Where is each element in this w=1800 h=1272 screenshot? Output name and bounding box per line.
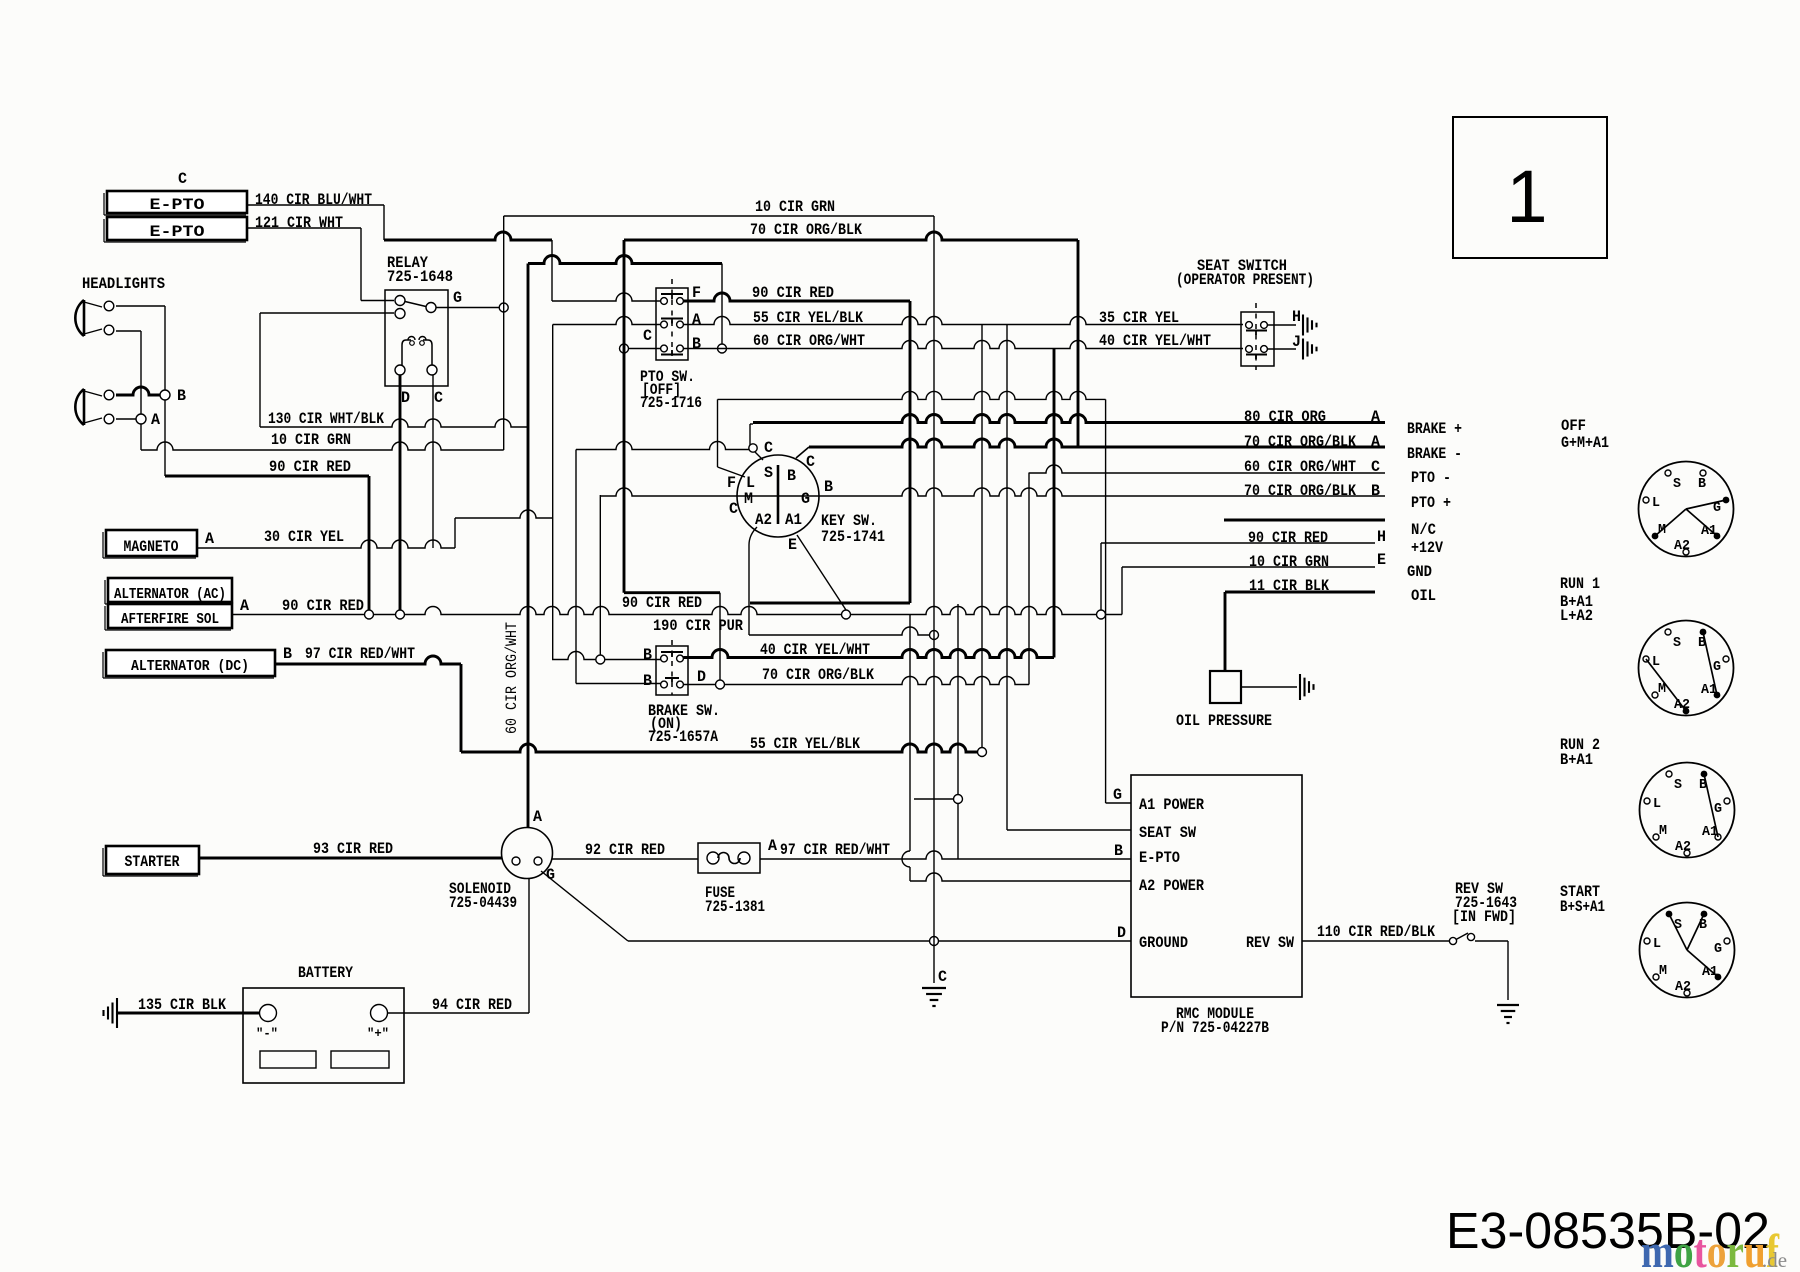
wire 10 CIR GRN E [1122, 566, 1375, 568]
wire 90 CIR RED afterfire [232, 614, 365, 616]
svg-text:130 CIR WHT/BLK: 130 CIR WHT/BLK [268, 410, 384, 428]
seat actuator dashes [1255, 303, 1257, 370]
alternator AC box [108, 578, 232, 602]
wire PTO B line [628, 348, 661, 350]
relay blade [405, 302, 426, 307]
wire 60 CIR ORG/WHT C [1029, 465, 1385, 473]
alternator DC box [106, 650, 275, 676]
svg-text:G+M+A1: G+M+A1 [1561, 434, 1609, 452]
key pin A2 drop [749, 527, 757, 635]
svg-text:[IN FWD]: [IN FWD] [1452, 908, 1516, 926]
svg-text:70 CIR ORG/BLK: 70 CIR ORG/BLK [1244, 482, 1356, 500]
svg-text:10 CIR GRN: 10 CIR GRN [755, 198, 835, 216]
svg-text:725-1657A: 725-1657A [648, 728, 718, 746]
wire seat J out [1268, 348, 1297, 350]
svg-text:F: F [692, 284, 701, 302]
svg-text:A2: A2 [1675, 839, 1691, 855]
wire lamp2 top to node B [116, 387, 165, 395]
wire vertical bus 934 [933, 216, 935, 941]
wire 55 CIR YEL/BLK lower [461, 744, 982, 752]
svg-text:B: B [177, 387, 186, 405]
wire A1 power net [717, 399, 719, 467]
junction +12V drop [1097, 610, 1106, 619]
svg-text:70 CIR ORG/BLK: 70 CIR ORG/BLK [762, 666, 874, 684]
wire seat H out [1268, 324, 1297, 326]
svg-text:725-04439: 725-04439 [449, 894, 517, 912]
svg-text:A2: A2 [755, 511, 772, 529]
relay switch pin 3 [426, 303, 436, 313]
svg-text:N/C: N/C [1411, 521, 1436, 539]
svg-text:RUN 1: RUN 1 [1560, 575, 1600, 593]
wire 130 CIR WHT/BLK [260, 312, 394, 314]
PTO contact F [661, 293, 683, 295]
svg-text:MAGNETO: MAGNETO [124, 538, 179, 556]
starter box [106, 846, 199, 874]
key position START [1640, 903, 1735, 998]
key pin C top [749, 444, 757, 452]
wire 10 CIR GRN right portion [576, 442, 750, 450]
wire N/C line [1224, 519, 1385, 522]
svg-text:L+A2: L+A2 [1560, 607, 1593, 625]
svg-text:G: G [453, 289, 462, 307]
junction relay D on AFTERFIRE line [396, 610, 405, 619]
node B junction [160, 390, 170, 400]
svg-text:B: B [1698, 476, 1707, 492]
solenoid pin right [534, 857, 542, 865]
wire brake bottom feed [575, 450, 577, 684]
wire key M-G line [600, 488, 1385, 496]
svg-text:B: B [1371, 482, 1380, 500]
svg-text:E-PTO: E-PTO [1139, 849, 1180, 867]
wire seat sw feed [1006, 325, 1008, 830]
svg-text:140 CIR BLU/WHT: 140 CIR BLU/WHT [255, 191, 372, 209]
PTO switch box [656, 288, 688, 360]
svg-text:"-": "-" [256, 1026, 278, 1041]
svg-text:G: G [1713, 659, 1721, 675]
svg-text:A: A [151, 411, 160, 429]
svg-text:B+S+A1: B+S+A1 [1560, 898, 1605, 916]
wire oil pressure ground [1241, 686, 1297, 688]
ground battery minus [116, 998, 118, 1028]
svg-text:REV SW: REV SW [1246, 934, 1294, 952]
svg-text:G: G [1113, 786, 1122, 804]
wire lamp1 bottom [116, 330, 141, 332]
svg-text:motoruf: motoruf [1641, 1225, 1780, 1272]
svg-text:STARTER: STARTER [125, 853, 180, 871]
svg-text:B: B [787, 467, 796, 485]
svg-text:OIL PRESSURE: OIL PRESSURE [1176, 712, 1272, 730]
svg-text:B: B [1699, 917, 1708, 933]
svg-text:ALTERNATOR (DC): ALTERNATOR (DC) [131, 658, 249, 675]
seat contact H [1246, 330, 1267, 332]
svg-text:S: S [1673, 476, 1681, 492]
svg-text:40 CIR YEL/WHT: 40 CIR YEL/WHT [1099, 332, 1211, 350]
svg-text:C: C [764, 439, 773, 457]
svg-text:.de: .de [1762, 1248, 1787, 1272]
junction on AFTERFIRE line [365, 610, 374, 619]
wire 70 CIR ORG/BLK (top) [624, 232, 1078, 240]
wire jumper 263 (PTO feed) [528, 256, 722, 264]
svg-text:B: B [692, 335, 701, 353]
svg-text:60 CIR ORG/WHT: 60 CIR ORG/WHT [753, 332, 865, 350]
wire ground D line [628, 940, 1131, 942]
svg-text:D: D [697, 668, 706, 686]
magneto box [106, 530, 197, 556]
svg-text:D: D [1117, 924, 1126, 942]
relay coil pin D [395, 365, 405, 375]
brake contact top [661, 651, 683, 653]
ground C symbol [922, 987, 946, 989]
PTO contact B [661, 345, 668, 352]
connector E-PTO (upper) [107, 191, 247, 213]
seat switch box [1241, 312, 1274, 366]
svg-text:A: A [768, 837, 777, 855]
svg-text:725-1381: 725-1381 [705, 898, 765, 916]
svg-text:70 CIR ORG/BLK: 70 CIR ORG/BLK [750, 221, 862, 239]
svg-text:B: B [283, 645, 292, 663]
key position OFF [1639, 462, 1734, 557]
wire 30 CIR YEL [197, 540, 455, 548]
svg-text:A: A [205, 530, 214, 548]
wire rev sw to ground [1475, 940, 1508, 942]
wire 496 feed vertical [599, 495, 601, 655]
battery cell rect 2 [331, 1051, 389, 1068]
svg-text:E-PTO: E-PTO [150, 196, 205, 214]
svg-text:10 CIR GRN: 10 CIR GRN [1249, 553, 1329, 571]
svg-text:L: L [1653, 936, 1661, 952]
svg-text:121 CIR WHT: 121 CIR WHT [255, 214, 343, 232]
wire 92 CIR RED [553, 858, 699, 860]
key pin E diagonal [797, 535, 846, 610]
wire 11 CIR BLK [1225, 591, 1375, 594]
svg-text:SEAT SW: SEAT SW [1139, 824, 1196, 842]
oil pressure box [1210, 671, 1241, 703]
ground seat H [1302, 315, 1304, 336]
svg-text:90 CIR RED: 90 CIR RED [269, 458, 351, 476]
rev switch [1449, 937, 1456, 944]
ground oil pressure [1299, 674, 1301, 700]
ground rev sw [1497, 1004, 1519, 1006]
key position RUN 2 [1640, 763, 1735, 858]
wire vertical bus 624 [623, 240, 626, 593]
svg-text:B: B [643, 672, 652, 690]
svg-text:B: B [824, 478, 833, 496]
svg-text:725-1716: 725-1716 [640, 394, 702, 412]
wire relay G to bus [436, 307, 499, 309]
svg-text:J: J [1292, 333, 1301, 351]
key pin F diag [718, 467, 746, 477]
wire 93 CIR RED [199, 857, 502, 860]
svg-text:GND: GND [1407, 563, 1432, 581]
svg-text:S: S [1674, 777, 1682, 793]
svg-text:H: H [1377, 528, 1386, 546]
junction relay G on vertical 503 [499, 303, 508, 312]
svg-text:C: C [729, 500, 738, 518]
battery terminal minus [260, 1005, 277, 1022]
svg-text:C: C [806, 453, 815, 471]
svg-text:C: C [938, 968, 947, 986]
svg-text:A: A [692, 311, 701, 329]
wire 80 CIR ORG [753, 415, 1385, 423]
wire relay C down [432, 375, 434, 548]
key switch bar [777, 465, 780, 524]
svg-text:S: S [1673, 635, 1681, 651]
solenoid circle [502, 828, 553, 879]
svg-text:OIL: OIL [1411, 587, 1436, 605]
svg-text:F: F [727, 474, 736, 492]
svg-text:E-PTO: E-PTO [150, 223, 205, 241]
svg-text:A1: A1 [785, 511, 802, 529]
svg-text:L: L [1652, 495, 1660, 511]
wire 80 CIR ORG from C [749, 424, 751, 445]
svg-text:A1 POWER: A1 POWER [1139, 796, 1204, 814]
svg-text:M: M [744, 490, 753, 508]
junction PTO B left [620, 344, 629, 353]
svg-text:B: B [1114, 842, 1123, 860]
svg-text:90 CIR RED: 90 CIR RED [282, 597, 364, 615]
svg-text:ALTERNATOR (AC): ALTERNATOR (AC) [114, 586, 226, 603]
svg-text:M: M [1659, 963, 1667, 979]
wire 121 CIR WHT [247, 227, 361, 229]
svg-text:A1: A1 [1702, 964, 1718, 980]
key pin C2 [796, 447, 809, 458]
wire 40 CIR YEL/WHT [683, 650, 1054, 658]
svg-text:C: C [178, 170, 187, 188]
svg-text:90 CIR RED: 90 CIR RED [752, 284, 834, 302]
svg-text:H: H [1292, 308, 1301, 326]
svg-text:725-1648: 725-1648 [387, 268, 453, 286]
solenoid pin left [512, 857, 520, 865]
svg-text:"+": "+" [367, 1026, 389, 1041]
wire PTO A line [553, 317, 661, 325]
svg-text:E: E [788, 536, 797, 554]
brake switch box [656, 646, 688, 695]
svg-text:(OPERATOR PRESENT): (OPERATOR PRESENT) [1176, 271, 1314, 289]
svg-text:10 CIR GRN: 10 CIR GRN [271, 431, 351, 449]
wire 97 CIR RED/WHT alt [275, 656, 461, 664]
svg-text:S: S [764, 464, 773, 482]
svg-text:PTO +: PTO + [1411, 494, 1451, 512]
svg-text:93 CIR RED: 93 CIR RED [313, 840, 393, 858]
svg-text:D: D [401, 389, 410, 407]
wire 90 CIR RED (left) [165, 475, 369, 478]
relay switch pin 1 [395, 296, 405, 306]
svg-text:BRAKE +: BRAKE + [1407, 420, 1462, 438]
wire PTO F feed [552, 293, 661, 301]
svg-text:P/N 725-04227B: P/N 725-04227B [1161, 1019, 1269, 1037]
wire lamp2 bottom to node A [116, 418, 141, 420]
svg-text:HEADLIGHTS: HEADLIGHTS [82, 275, 165, 293]
svg-text:G: G [1714, 801, 1722, 817]
wire lamp1 top to node B [116, 305, 165, 307]
wire 135 CIR BLK [117, 1012, 260, 1015]
svg-text:97 CIR RED/WHT: 97 CIR RED/WHT [780, 841, 890, 859]
brake actuator dashes [671, 640, 673, 695]
svg-text:110 CIR RED/BLK: 110 CIR RED/BLK [1317, 923, 1435, 941]
node A vertical [140, 331, 142, 450]
afterfire sol box [108, 604, 232, 628]
svg-text:+12V: +12V [1411, 539, 1443, 557]
svg-text:M: M [1659, 823, 1667, 839]
svg-text:BRAKE -: BRAKE - [1407, 445, 1462, 463]
fuse box [698, 843, 760, 873]
svg-text:A2 POWER: A2 POWER [1139, 877, 1204, 895]
wire 90 red drop segment [624, 591, 720, 594]
wire 10 CIR GRN (left) [141, 442, 504, 450]
svg-text:1: 1 [1506, 155, 1547, 238]
node B vertical [164, 306, 166, 476]
wire 70 CIR ORG/BLK A [809, 439, 1385, 447]
wire 10 CIR GRN (top) [503, 216, 505, 450]
svg-text:A: A [240, 597, 249, 615]
junction PTO B right [718, 344, 727, 353]
fuse element [707, 852, 719, 864]
battery cell rect 1 [260, 1051, 316, 1068]
svg-text:30 CIR YEL: 30 CIR YEL [264, 528, 344, 546]
svg-text:725-1741: 725-1741 [821, 528, 885, 546]
svg-text:GROUND: GROUND [1139, 934, 1188, 952]
headlight lamp 1 [75, 300, 84, 336]
wire A2 power [910, 873, 1131, 881]
PTO switch actuator dashes [671, 279, 673, 356]
seat contact J [1246, 354, 1267, 356]
junction 190 PUR [930, 631, 939, 640]
svg-text:190 CIR PUR: 190 CIR PUR [653, 617, 743, 635]
wire 97/E-PTO to RMC [957, 604, 959, 859]
svg-text:B+A1: B+A1 [1560, 751, 1593, 769]
headlight lamp 2 [75, 389, 84, 425]
wire A2 910 stub [909, 615, 911, 852]
svg-text:AFTERFIRE SOL: AFTERFIRE SOL [121, 611, 219, 628]
junction E diag [842, 610, 851, 619]
svg-text:G: G [801, 490, 810, 508]
ground seat J [1302, 339, 1304, 360]
wire +12V vertical [1100, 543, 1102, 610]
connector E-PTO (lower) [107, 217, 247, 240]
svg-text:PTO -: PTO - [1411, 469, 1451, 487]
wire 90 CIR RED afterfire right [851, 607, 1097, 615]
svg-text:55 CIR YEL/BLK: 55 CIR YEL/BLK [750, 735, 860, 753]
svg-text:A2: A2 [1675, 979, 1691, 995]
node A junction [136, 414, 146, 424]
svg-text:94 CIR RED: 94 CIR RED [432, 996, 512, 1014]
PTO contact A [661, 318, 683, 320]
wire rev sw line [1302, 940, 1449, 942]
svg-text:90 CIR RED: 90 CIR RED [622, 594, 702, 612]
RMC module box [1131, 775, 1302, 997]
svg-text:135 CIR BLK: 135 CIR BLK [138, 996, 226, 1014]
wire 94 CIR RED [388, 1012, 530, 1014]
svg-text:C: C [643, 327, 652, 345]
relay K1 box [385, 290, 448, 386]
wire brake D out [683, 684, 716, 686]
battery terminal plus [371, 1005, 388, 1022]
wire 90 CIR RED H [1101, 542, 1375, 544]
wire 60 CIR ORG/WHT vertical [527, 264, 530, 828]
svg-text:G: G [1714, 941, 1722, 957]
svg-text:A: A [533, 808, 542, 826]
svg-text:60 CIR ORG/WHT: 60 CIR ORG/WHT [503, 622, 521, 734]
svg-text:A1: A1 [1701, 523, 1717, 539]
battery box [243, 988, 404, 1083]
relay switch pin 2 [395, 309, 405, 319]
wire 190 CIR PUR [749, 627, 934, 635]
key switch circle [737, 455, 819, 537]
wire vertical bus 982 [981, 325, 983, 748]
sheet number box [1453, 117, 1607, 258]
svg-text:B: B [643, 646, 652, 664]
svg-text:OFF: OFF [1561, 417, 1586, 435]
wire ground C drop [933, 941, 935, 983]
wire solenoid G diagonal [541, 871, 628, 941]
svg-text:BATTERY: BATTERY [298, 964, 353, 982]
svg-text:L: L [1653, 796, 1661, 812]
svg-text:C: C [434, 389, 443, 407]
svg-text:A2: A2 [1674, 538, 1690, 554]
svg-text:97 CIR RED/WHT: 97 CIR RED/WHT [305, 645, 415, 663]
brake contact bottom [665, 677, 679, 679]
relay coil pin C [427, 365, 437, 375]
junction 55 line end [978, 748, 987, 757]
wire 97 CIR RED/WHT [760, 851, 1131, 859]
junction ground C [930, 937, 939, 946]
wire 140 CIR BLU/WHT [247, 204, 384, 206]
wire brake top feed [552, 652, 596, 660]
svg-text:90 CIR RED: 90 CIR RED [1248, 529, 1328, 547]
key position RUN 1 [1639, 621, 1734, 716]
wire 90 CIR RED (middle) [683, 293, 910, 301]
svg-text:E: E [1377, 551, 1386, 569]
wire relay D down [399, 375, 402, 610]
svg-text:92 CIR RED: 92 CIR RED [585, 841, 665, 859]
relay coil [402, 340, 432, 365]
